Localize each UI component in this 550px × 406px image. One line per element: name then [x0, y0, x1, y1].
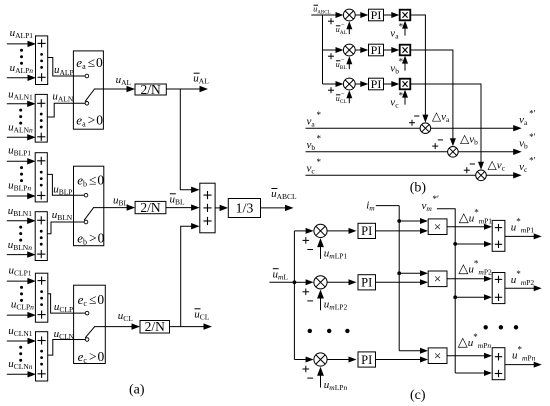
svg-text:PI: PI: [371, 77, 382, 91]
svg-text:uBL: uBL: [170, 193, 186, 206]
summing junction delta-v_b: [448, 147, 459, 158]
wire: [410, 84, 481, 163]
minus sign: [307, 377, 313, 379]
svg-text:△u*mP2: △u*mP2: [458, 259, 492, 277]
svg-text:va: va: [307, 115, 316, 128]
output label v_b*': [519, 132, 536, 150]
wire v_b* line: [306, 151, 515, 153]
PI controller (row a): [369, 8, 384, 22]
svg-text:*′: *′: [529, 132, 536, 142]
wire bus: [293, 231, 295, 360]
switch contact P: [85, 311, 89, 315]
wire: [404, 28, 406, 36]
svg-text:uCLP1: uCLP1: [9, 265, 32, 278]
wire: [311, 14, 322, 16]
svg-text:uCL: uCL: [118, 310, 134, 323]
switch Sa box: [73, 51, 103, 129]
svg-text:ec>0: ec>0: [78, 349, 106, 365]
svg-text:uAL: uAL: [116, 74, 132, 87]
switch blade: [85, 327, 95, 338]
wire: [410, 50, 453, 140]
wire: [323, 83, 337, 85]
wire: [47, 174, 84, 195]
input label u_mL_avg: [273, 269, 289, 282]
multiplier block (row c): [400, 79, 411, 90]
svg-text:PI: PI: [361, 353, 372, 367]
svg-text:*′: *′: [433, 194, 440, 204]
output label u_CL_avg: [194, 308, 210, 321]
wire: [447, 226, 485, 228]
svg-text:uALN: uALN: [52, 90, 73, 103]
svg-text:ea>0: ea>0: [76, 112, 104, 128]
wire: [7, 280, 29, 282]
svg-text:*: *: [317, 157, 322, 167]
svg-text:−: −: [341, 90, 345, 97]
wire: [327, 281, 349, 283]
wire to summer input 3: [181, 226, 192, 326]
summing junction delta-v_c: [476, 170, 487, 181]
wire bus v_m: [437, 209, 455, 373]
svg-text:uBLN: uBLN: [52, 209, 73, 222]
switch blade: [85, 89, 95, 102]
multiplier block (module 2): [428, 271, 447, 287]
PI controller (module 2): [358, 275, 376, 290]
wire: [320, 246, 322, 259]
wire: [320, 375, 322, 388]
adder AN: [35, 94, 47, 142]
PI controller (module n): [358, 352, 376, 367]
ellipsis dots: [20, 166, 23, 182]
junction node: [453, 242, 457, 246]
label v_b*: [390, 57, 403, 76]
wire: [376, 359, 422, 361]
input label u_ABCL_avg: [313, 5, 330, 16]
ellipsis dots: [19, 109, 22, 125]
wire: [215, 207, 221, 209]
svg-text:(b): (b): [410, 181, 427, 196]
wire: [323, 14, 337, 16]
svg-text:im: im: [366, 200, 375, 213]
svg-text:uCLN: uCLN: [54, 328, 75, 341]
svg-text:△va: △va: [432, 109, 450, 124]
svg-text:u*mP1: u*mP1: [511, 217, 535, 235]
adder block (module 1): [492, 220, 505, 251]
wire: [7, 103, 28, 105]
wire: [93, 207, 128, 209]
svg-text:u*mP2: u*mP2: [511, 269, 535, 287]
plus sign: [303, 291, 310, 293]
adder BN: [35, 212, 47, 261]
gain block 2/N (phase B): [135, 200, 166, 215]
plus sign: [328, 55, 334, 57]
svg-text:PI: PI: [361, 276, 372, 290]
wire: [376, 230, 422, 232]
wire: [399, 350, 421, 352]
wire: [294, 230, 306, 232]
wire: [355, 14, 361, 16]
svg-text:uCLP: uCLP: [54, 301, 73, 314]
minus sign: [470, 163, 475, 165]
wire bus: [322, 15, 324, 84]
plus sign: [464, 169, 470, 171]
output label u_ABCL_avg: [271, 188, 297, 201]
wire: [48, 58, 85, 77]
wire: [327, 359, 349, 361]
summing junction (module 2): [314, 276, 327, 289]
svg-text:PI: PI: [371, 43, 382, 57]
output label v_a*': [519, 109, 536, 127]
adder AP: [36, 36, 48, 85]
wire: [505, 364, 535, 366]
svg-text:umLP1: umLP1: [324, 247, 348, 260]
svg-text:eb>0: eb>0: [77, 231, 105, 247]
wire: [7, 195, 28, 197]
wire: [447, 278, 485, 280]
svg-text:△vc: △vc: [488, 158, 506, 173]
wire v_a* line: [306, 127, 515, 129]
svg-text:vb: vb: [307, 139, 316, 152]
PI controller (row b): [369, 43, 384, 57]
wire: [384, 49, 393, 51]
adder CP: [35, 273, 47, 322]
wire: [294, 359, 306, 361]
wire: [94, 326, 132, 328]
wire: [327, 230, 349, 232]
svg-text:△vb: △vb: [460, 132, 478, 147]
svg-text:umLPn: umLPn: [324, 379, 348, 392]
wire: [7, 43, 29, 45]
svg-text:vc: vc: [307, 162, 316, 175]
junction node: [397, 271, 401, 275]
ellipsis dots: [20, 286, 23, 302]
wire: [410, 15, 425, 116]
svg-text:uALP: uALP: [54, 64, 74, 77]
minus sign: [438, 139, 443, 141]
wire v_c* line: [306, 174, 515, 176]
wire: [7, 77, 29, 79]
wire: [294, 281, 306, 283]
wire: [7, 340, 29, 342]
node label u_BL_avg: [170, 193, 186, 206]
wire: [48, 340, 86, 356]
wire: [455, 296, 485, 298]
wire: [94, 88, 128, 90]
switch contact P: [84, 193, 88, 197]
plus sign: [328, 20, 334, 22]
multiplier block (module 1): [428, 219, 447, 235]
wire: [7, 254, 28, 256]
wire: [47, 222, 84, 234]
wire: [376, 281, 422, 283]
wire: [384, 83, 393, 85]
multiplier block (module n): [428, 348, 447, 364]
ellipsis dots: [484, 325, 519, 329]
wire: [7, 136, 28, 138]
wire: [7, 314, 29, 316]
svg-text:eb≤0: eb≤0: [77, 173, 105, 189]
svg-text:*′: *′: [529, 109, 536, 119]
ellipsis dots: [20, 49, 23, 65]
junction node: [453, 295, 457, 299]
minus sign: [414, 115, 419, 117]
summer block: [200, 183, 215, 233]
wire: [505, 287, 535, 289]
wire: [269, 281, 294, 283]
svg-text:2/N: 2/N: [141, 82, 162, 97]
svg-text:PI: PI: [371, 8, 382, 22]
svg-text:PI: PI: [361, 224, 372, 238]
svg-text:△u*mP1: △u*mP1: [459, 207, 493, 225]
junction node: [397, 219, 401, 223]
minus sign: [307, 249, 313, 251]
wire: [47, 103, 85, 117]
svg-text:vb: vb: [519, 138, 528, 151]
svg-text:vm: vm: [422, 200, 433, 213]
wire: [261, 207, 287, 209]
adder block (module n): [492, 348, 505, 380]
wire: [348, 63, 350, 69]
adder BP: [35, 153, 47, 202]
svg-text:×: ×: [434, 271, 441, 286]
ellipsis dots: [308, 329, 350, 333]
wire: [320, 297, 322, 310]
feedback label u_BL_avg minus: [336, 56, 348, 71]
svg-text:−: −: [341, 21, 345, 28]
wire: [170, 326, 205, 328]
wire: [7, 160, 28, 162]
svg-text:uBLP: uBLP: [53, 184, 72, 197]
junction node: [293, 280, 297, 284]
svg-text:×: ×: [434, 219, 441, 234]
plus sign: [409, 122, 415, 124]
wire bus i_m: [398, 206, 400, 351]
multiplier block (row a): [400, 10, 411, 21]
adder CN: [36, 332, 48, 381]
wire: [404, 97, 406, 105]
ellipsis dots: [19, 226, 22, 242]
label v_a*: [390, 22, 403, 41]
svg-text:u*mPn: u*mPn: [512, 344, 536, 362]
gain block 2/N (phase A): [135, 82, 166, 97]
svg-text:uBLP1: uBLP1: [8, 145, 31, 158]
svg-text:△u*mPn: △u*mPn: [458, 332, 492, 350]
svg-text:uALN1: uALN1: [8, 89, 33, 102]
input label v_a*: [307, 110, 322, 128]
wire: [505, 235, 535, 237]
wire: [348, 97, 350, 103]
svg-text:uCL: uCL: [194, 308, 210, 321]
input label v_m*': [422, 194, 440, 213]
wire: [7, 220, 28, 222]
svg-text:*: *: [317, 110, 322, 120]
PI controller (module 1): [358, 223, 376, 238]
svg-text:*: *: [317, 134, 322, 144]
wire: [404, 63, 406, 71]
svg-text:−: −: [341, 56, 345, 63]
wire: [348, 28, 350, 34]
output label u_AL_avg: [193, 73, 209, 86]
summing junction (module 1): [314, 224, 327, 237]
summing junction (row c): [343, 78, 355, 90]
svg-text:uCLN1: uCLN1: [8, 325, 33, 338]
switch Sb box: [74, 166, 104, 246]
summing junction (module n): [314, 353, 327, 366]
svg-text:uBLPn: uBLPn: [8, 179, 31, 192]
svg-text:ea≤0: ea≤0: [76, 55, 104, 71]
plus sign: [303, 239, 310, 241]
wire: [455, 243, 485, 245]
gain block 1/3: [228, 199, 260, 218]
svg-text:(c): (c): [410, 388, 426, 403]
svg-text:uBLN1: uBLN1: [8, 205, 33, 218]
wire: [376, 205, 399, 207]
label v_c*: [390, 91, 403, 110]
svg-text:uAL: uAL: [193, 73, 209, 86]
wire: [384, 14, 393, 16]
svg-text:(a): (a): [129, 383, 145, 398]
wire: [455, 372, 485, 374]
feedback label u_CL_avg minus: [336, 90, 348, 105]
output label v_c*': [519, 156, 536, 174]
summing junction (row b): [343, 44, 355, 56]
switch contact N: [85, 102, 89, 106]
minus sign: [307, 300, 313, 302]
svg-text:uALP1: uALP1: [10, 27, 34, 40]
wire: [399, 220, 421, 222]
svg-text:uABCL: uABCL: [271, 188, 297, 201]
svg-text:umL: umL: [273, 269, 289, 282]
switch Sc box: [74, 285, 106, 363]
wire: [166, 88, 200, 90]
ellipsis dots: [19, 346, 22, 362]
svg-text:uABCL: uABCL: [313, 5, 330, 16]
svg-text:×: ×: [434, 348, 441, 363]
feedback label u_AL_avg minus: [336, 21, 348, 36]
switch contact P: [85, 74, 89, 78]
adder block (module 2): [492, 273, 505, 304]
wire: [355, 49, 361, 51]
wire: [323, 49, 337, 51]
svg-text:2/N: 2/N: [145, 319, 166, 334]
svg-text:vc: vc: [519, 161, 528, 174]
svg-text:1/3: 1/3: [235, 202, 253, 217]
switch contact N: [84, 220, 88, 224]
input label v_b*: [307, 134, 322, 152]
svg-text:2/N: 2/N: [140, 200, 161, 215]
wire: [7, 373, 29, 375]
wire: [355, 83, 361, 85]
wire: [399, 272, 421, 274]
switch blade: [84, 208, 94, 221]
svg-text:*′: *′: [529, 156, 536, 166]
wire: [447, 355, 485, 357]
svg-text:ec≤0: ec≤0: [78, 292, 106, 308]
switch contact N: [85, 338, 89, 342]
plus sign: [328, 89, 334, 91]
summing junction delta-v_a: [420, 123, 431, 134]
input label v_c*: [307, 157, 322, 175]
svg-text:umLP2: umLP2: [324, 299, 348, 312]
svg-text:uBL: uBL: [113, 195, 129, 208]
plus sign: [432, 145, 438, 147]
svg-text:va: va: [519, 114, 528, 127]
wire to summer input 1: [180, 89, 192, 190]
wire: [166, 207, 192, 209]
summing junction (row a): [343, 9, 355, 21]
PI controller (row c): [369, 77, 384, 91]
multiplier block (row b): [400, 45, 411, 56]
plus sign: [303, 368, 310, 370]
gain block 2/N (phase C): [140, 319, 170, 334]
wire: [48, 294, 86, 313]
